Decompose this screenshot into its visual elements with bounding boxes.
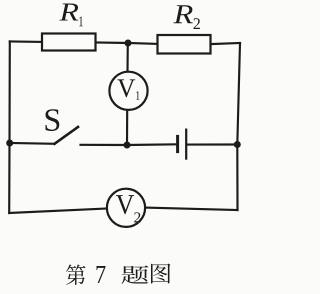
caption character 7 <box>97 266 106 283</box>
caption character 第 <box>66 264 86 285</box>
label V1: letter V <box>117 79 135 97</box>
node dot: right junction at battery <box>234 141 241 148</box>
wire voltmeter V2 to bottom-right corner <box>145 208 237 210</box>
wire R1 to top junction node <box>96 41 129 44</box>
label V1: subscript 1 <box>136 91 139 100</box>
wire mid junction to battery <box>127 143 176 146</box>
node dot: left junction at switch <box>6 140 13 147</box>
wire top junction down to voltmeter V1 <box>126 43 128 72</box>
voltmeter V1 circle <box>109 72 147 110</box>
battery negative plate (short thick) <box>176 136 179 151</box>
wire top junction node to R2 <box>128 42 158 45</box>
label R2: letter R <box>173 5 192 23</box>
wire top-left corner to resistor R1 <box>10 40 42 43</box>
caption character 题 <box>122 265 149 284</box>
wire left node to switch pivot <box>10 142 55 145</box>
node dot: mid junction below V1 <box>124 142 131 149</box>
wire bottom-left corner to voltmeter V2 <box>9 209 107 214</box>
wire switch fixed contact to mid junction <box>81 144 128 146</box>
wire battery to right junction node <box>187 143 237 145</box>
label V2: subscript 2 <box>134 212 140 222</box>
wire left rail <box>8 41 11 213</box>
wire voltmeter V1 down to mid junction <box>126 110 128 146</box>
caption character 图 <box>151 264 170 284</box>
wire R2 to top-right corner <box>211 43 241 44</box>
label R1: letter R <box>59 3 78 20</box>
label S (switch) <box>46 109 60 131</box>
label R1: subscript 1 <box>79 17 83 27</box>
switch S lever (open) <box>55 127 79 144</box>
wire right rail <box>237 43 240 210</box>
resistor R2 box <box>158 35 211 54</box>
node dot: top junction <box>125 40 132 47</box>
resistor R1 box <box>42 34 96 51</box>
label V2: letter V <box>116 195 134 214</box>
voltmeter V2 circle <box>107 189 145 227</box>
label R2: subscript 2 <box>194 18 200 29</box>
battery positive plate (long thin) <box>185 130 187 159</box>
